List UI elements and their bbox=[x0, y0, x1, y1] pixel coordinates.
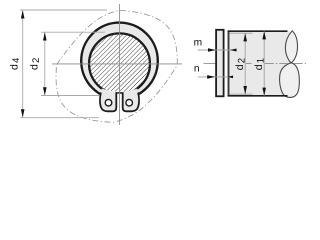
dimension d2 (left view): arrow down bbox=[43, 87, 47, 95]
dimension d1: arrow up bbox=[262, 31, 266, 39]
svg-text:d4: d4 bbox=[9, 56, 23, 70]
dimension d4: dimension line bbox=[22, 10, 24, 117]
lug left fill (merges into annulus) bbox=[100, 89, 116, 112]
dimension m: right arrow bbox=[230, 49, 237, 52]
shaft centerline mid segment bbox=[246, 62, 252, 64]
shaft bottom line bbox=[228, 95, 288, 97]
dimension d2 (right view): extension line top bbox=[230, 32, 253, 34]
svg-text:d2: d2 bbox=[28, 56, 42, 70]
vertical centerline bbox=[119, 4, 121, 125]
shaft centerline left segment bbox=[204, 62, 216, 64]
svg-text:m: m bbox=[194, 38, 203, 49]
shaft left face bbox=[228, 31, 230, 97]
dimension d4: extension line top bbox=[20, 9, 107, 11]
shaft end break: upper lobe bbox=[285, 31, 297, 63]
hole in left lug bbox=[105, 99, 112, 106]
lug right fill (merges into annulus) bbox=[123, 89, 139, 112]
dimension d2 (left view): extension line bottom bbox=[41, 95, 99, 97]
dimension d2 (left view): arrow up bbox=[43, 32, 47, 40]
dimension d2 (right view): arrow up bbox=[243, 33, 247, 41]
ring outer contour (bold, grey annulus fill) bbox=[81, 23, 158, 100]
lug left outline bbox=[100, 93, 116, 112]
shaft end break: lower lobe bbox=[280, 63, 300, 98]
dimension d1: arrow down bbox=[262, 88, 266, 96]
dimension d4: arrow down bbox=[21, 109, 25, 117]
svg-text:d1: d1 bbox=[253, 57, 267, 71]
gap slot between lug ends bbox=[116, 92, 124, 113]
dimension m: left arrow bbox=[208, 48, 216, 52]
dimension d2 (left view): extension line top bbox=[41, 31, 105, 33]
dimension d2 (right view): arrow down bbox=[243, 86, 247, 94]
svg-text:d2: d2 bbox=[234, 57, 248, 71]
dimension n: left arrow bbox=[207, 75, 215, 79]
dimension n: right arrow bbox=[228, 76, 233, 79]
dimension d4: arrow up bbox=[21, 10, 25, 18]
horizontal centerline bbox=[52, 63, 182, 65]
dimension d2 (right view): extension line bottom bbox=[230, 93, 253, 95]
shaft top line bbox=[228, 30, 288, 32]
dimension d2 (right view): dimension line bbox=[244, 33, 246, 94]
phantom opened-ring outline (dash-dot oval) bbox=[56, 10, 177, 122]
dimension n: leader line bbox=[198, 76, 234, 78]
hole in right lug bbox=[126, 99, 133, 106]
dimension d2 (left view): dimension line bbox=[44, 32, 46, 95]
shaft body bbox=[229, 31, 290, 96]
dimension d4: extension line bottom bbox=[20, 117, 99, 119]
lug right outline bbox=[123, 93, 139, 112]
dimension m: leader line bbox=[198, 49, 237, 51]
ring cross-section (mounted) bbox=[216, 30, 224, 97]
shaft centerline right segment bbox=[265, 62, 306, 64]
slot top edge bbox=[116, 92, 124, 94]
dimension d1: dimension line bbox=[263, 31, 265, 96]
svg-text:n: n bbox=[194, 64, 200, 75]
